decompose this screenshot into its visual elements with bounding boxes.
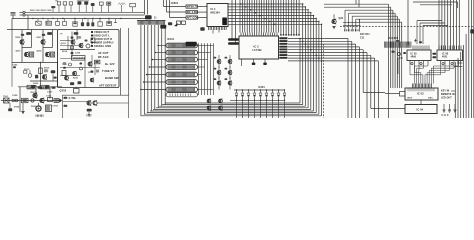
svg-text:AF OUT: AF OUT [98, 51, 109, 55]
U4 bottom stubs [440, 61, 442, 65]
svg-text:RF AGC: RF AGC [98, 55, 109, 59]
wire lower branch [30, 80, 58, 82]
svg-text:C21: C21 [360, 38, 365, 40]
resistor R9 label [26, 32, 31, 35]
svg-text:C918: C918 [53, 106, 59, 108]
svg-text:C908: C908 [12, 95, 18, 97]
IC U4 body [437, 50, 463, 61]
label box TP2 [40, 85, 49, 89]
capacitor C9 [51, 70, 56, 73]
test point cluster [160, 25, 166, 29]
transistor Q1 [20, 40, 24, 44]
transistor row under arrays 2 [207, 106, 211, 110]
nested corner links bundle to U3 area [417, 20, 442, 22]
wire U5 to U6 [420, 100, 422, 105]
diode array D4-D12 [236, 89, 237, 90]
capacitor C2 [91, 3, 95, 6]
mid module lower circuit [65, 76, 69, 80]
resistor R4 [130, 3, 136, 6]
resistor R6 [64, 19, 66, 22]
svg-text:B+ 12V: B+ 12V [105, 62, 115, 66]
connector stubs left edge of box [64, 97, 68, 99]
right descenders from bus corners (9) [347, 39, 349, 119]
resistor R12 [51, 52, 55, 57]
svg-text:R907: R907 [37, 37, 42, 39]
transistor Q7 [40, 98, 44, 102]
small parts below U3 U4 stubs [411, 62, 413, 64]
svg-text:KEY IN: KEY IN [441, 91, 449, 93]
diode D3 [8, 108, 12, 111]
resistor R20 [54, 99, 59, 103]
svg-text:D905: D905 [33, 83, 39, 85]
label box TP1 [27, 85, 36, 89]
extra grid verticals right of U2 [280, 0, 282, 34]
outer wire U3 left down to U5 [398, 57, 403, 59]
svg-text:X-TAL: X-TAL [69, 97, 77, 100]
riser verticals with junctions (9) [299, 39, 301, 104]
vertical grid right of arrays [198, 43, 200, 95]
svg-text:BAND SW: BAND SW [105, 76, 119, 80]
top jumper wires [413, 1, 458, 3]
vertical feed IC U3 leftmost pin [407, 0, 409, 45]
wire right bus joins [457, 62, 463, 64]
bottom bus horizontals heading left (9) [165, 102, 300, 104]
IC U3 top pin comb [412, 46, 414, 51]
IC U3 body [407, 50, 431, 61]
left block column 1 wire [21, 30, 23, 63]
resistor R13 [39, 68, 43, 74]
svg-text:C208: C208 [75, 53, 81, 55]
resistor R14 [91, 38, 95, 43]
resistor R7 [99, 19, 101, 22]
svg-text:VIDEO OUT: VIDEO OUT [94, 30, 109, 34]
IC U6 body [405, 105, 437, 114]
bus connector strip [137, 20, 166, 22]
wire drop to left block [11, 19, 13, 30]
transistor Q10 [332, 19, 336, 23]
svg-text:C G C: C G C [442, 114, 449, 117]
zener D2 [35, 75, 38, 79]
wires inside module lower [60, 67, 100, 69]
resistor R1 [57, 2, 60, 5]
svg-text:RA01: RA01 [168, 38, 175, 41]
op-amp circuit inside module [74, 32, 79, 35]
svg-text:TUNE VT: TUNE VT [102, 69, 114, 73]
left stub verticals top-right [355, 0, 357, 4]
connector pins CN2 [12, 99, 15, 102]
svg-text:R221: R221 [73, 78, 79, 80]
svg-text:IC 03: IC 03 [417, 92, 424, 96]
svg-text:IF: IF [61, 34, 64, 36]
component chain inside module [71, 32, 73, 59]
U2 right pin labels [279, 37, 287, 39]
IC U5 body [405, 88, 438, 100]
bus taps to resistor arrays [158, 45, 166, 47]
wire signal drops to U1 inputs [163, 0, 165, 7]
wire crossing diode array [230, 99, 285, 101]
component cluster bottom of mid-left [31, 85, 35, 88]
wire feed verticals to connector [144, 0, 146, 15]
node junctions on supply rail [32, 18, 33, 19]
U1 bottom pins [208, 27, 210, 31]
svg-text:Q702: Q702 [60, 88, 67, 92]
svg-text:J1: J1 [154, 16, 157, 19]
wire bottom of columns [12, 62, 58, 64]
wire main supply rail [12, 18, 146, 20]
extra parts lower module [90, 78, 94, 82]
capacitor C3 [37, 19, 39, 22]
resistor R16 [62, 71, 66, 76]
svg-text:AUDIO OUT L: AUDIO OUT L [92, 34, 110, 38]
U2 top pin comb [240, 33, 242, 37]
svg-text:LED OUT: LED OUT [441, 98, 452, 100]
transistor Q6 [33, 93, 37, 97]
pin-number comb above U3 [384, 42, 386, 48]
resistor R15 [95, 60, 100, 64]
U1 internal dark block [222, 18, 227, 26]
svg-text:IC 05: IC 05 [411, 53, 418, 56]
svg-text:VIF58.75: VIF58.75 [187, 6, 198, 9]
wire branch [40, 63, 42, 87]
transistor Q4 [45, 52, 49, 56]
U3 bottom stubs [409, 61, 411, 65]
wire signal chain [1, 100, 62, 102]
connector CN1 pins [23, 11, 25, 13]
wires inside bottom box [63, 101, 88, 103]
resistor R5 [57, 19, 59, 22]
wire top rail A [25, 11, 144, 13]
resistor R1c [69, 2, 72, 5]
transistor Q5 [42, 75, 46, 79]
svg-text:R905: R905 [16, 37, 21, 39]
capacitor C1 [51, 6, 55, 8]
svg-text:IC 06: IC 06 [442, 53, 449, 56]
tick labels under small grid [344, 29, 346, 31]
long verticals to bottom module [120, 28, 122, 95]
tick marks [35, 115, 37, 117]
wires arrays right ends [198, 45, 214, 47]
resistor R1b [63, 2, 66, 5]
far right vertical bus [454, 62, 456, 118]
transistor row under arrays 1 [207, 99, 211, 103]
dashed boundary horizontal [340, 26, 474, 28]
left block column 2 wire [42, 30, 44, 63]
svg-text:R916: R916 [44, 68, 50, 70]
wire label boxes to U1 [198, 6, 208, 8]
vertical bus into U2 (17 lines) [239, 0, 241, 33]
input label box 1 [186, 5, 198, 8]
far right edge mark [470, 29, 474, 33]
svg-text:IC 04: IC 04 [417, 107, 424, 111]
wire bottom-left rail [18, 86, 62, 88]
junction dots on crossing wire [236, 100, 237, 101]
svg-text:IC801: IC801 [171, 1, 179, 5]
IC U5 top pin comb [412, 84, 414, 89]
svg-text:4066: 4066 [411, 56, 417, 59]
wire rail left block top [7, 29, 58, 31]
U1 to bus horizontals with junction dots [228, 3, 303, 5]
capacitor C12 [46, 105, 52, 112]
module enclosure box [58, 30, 120, 88]
capacitor C13 above box [74, 89, 80, 94]
oscillator X1 box [72, 56, 86, 61]
parts below comb above U3 [392, 51, 395, 53]
bus horizontals from U2 to right (9) [288, 38, 348, 40]
dark label on top resistor array [186, 42, 197, 47]
components below U1 [200, 27, 204, 30]
ground cluster right of U6 [443, 104, 445, 110]
svg-text:R40 R41: R40 R41 [360, 33, 370, 36]
U5 left connector [400, 92, 406, 97]
svg-text:4051: 4051 [442, 56, 448, 59]
U2 left label 2 [228, 42, 238, 45]
transistor Q3 [41, 40, 45, 44]
input label box 3 [186, 16, 198, 19]
svg-text:AFT DEFEAT: AFT DEFEAT [99, 83, 117, 87]
extra parts on chain [31, 99, 34, 102]
U2 bottom stubs [253, 59, 255, 63]
svg-text:R52 R53: R52 R53 [389, 38, 399, 40]
ground under Q10 [332, 26, 335, 28]
input label box 2 [186, 10, 198, 13]
svg-text:OSC: OSC [428, 98, 433, 100]
wire top rail B [25, 14, 144, 16]
capacitor C10 [70, 82, 74, 85]
wire diode array rail [234, 89, 285, 91]
svg-text:Q201: Q201 [61, 43, 67, 45]
svg-text:SIGNAL GND: SIGNAL GND [94, 44, 111, 48]
resistor R10 [30, 52, 34, 57]
inductor L1 [118, 3, 125, 5]
IC U1 body [207, 4, 228, 27]
extra verticals for U2 left labels [231, 0, 233, 40]
vertical bus into U4 (8) [438, 0, 440, 50]
svg-text:RST: RST [408, 98, 413, 100]
IC U2 body [239, 36, 279, 59]
svg-text:D908: D908 [14, 107, 20, 109]
svg-text:Q31: Q31 [339, 17, 344, 20]
svg-text:Q901: Q901 [16, 51, 21, 53]
svg-text:M51364: M51364 [211, 12, 221, 15]
resistor R18 [22, 98, 29, 102]
transistor Q2 [24, 52, 28, 56]
transistor pair row 3 [217, 81, 221, 85]
capacitor C4 [47, 19, 49, 22]
capacitor C6 [82, 19, 84, 23]
svg-text:REMOTE IN: REMOTE IN [441, 94, 455, 96]
component between U3 U4 [432, 53, 436, 55]
svg-text:D401: D401 [259, 86, 266, 89]
crystal X2 [87, 109, 92, 112]
small parts left of U1 [177, 21, 181, 24]
resistor R8 [108, 19, 110, 22]
signal label list upper [91, 31, 93, 33]
svg-text:R214: R214 [62, 50, 68, 53]
resistor R17 [4, 98, 10, 103]
wire stub [115, 19, 117, 23]
resistor array bars RA1-RA7 [166, 43, 198, 48]
IC U4 top pin comb [438, 46, 440, 51]
upper-right horizontals into nested corners (7) [324, 3, 389, 5]
diode bridge D1 [77, 1, 81, 4]
svg-text:T201: T201 [62, 64, 68, 66]
ground symbol bottom-left [22, 103, 24, 112]
svg-text:D901 C903 R901 C905: D901 C903 R901 C905 [30, 10, 52, 12]
capacitor C5 [74, 19, 76, 22]
nest wires U3 to U5 [414, 66, 416, 84]
junction blob on connector [145, 15, 152, 19]
resistor R19 [48, 98, 53, 102]
bus link from U5 labels [451, 90, 455, 92]
capacitor C7 [87, 19, 89, 23]
svg-text:LC7462: LC7462 [253, 49, 263, 52]
svg-text:Q902: Q902 [37, 51, 42, 53]
transistor Q9 [93, 101, 97, 105]
resistor R3 [107, 2, 111, 5]
capacitor C11 electrolytic [36, 106, 41, 111]
svg-text:SIF 4.5M: SIF 4.5M [187, 11, 198, 14]
module box bottom-left [63, 95, 129, 118]
transistor pair row 2 [217, 71, 221, 75]
dashed boundary vertical [323, 44, 325, 118]
transistor Q8 [87, 101, 91, 105]
transistor pair row 1 [217, 60, 221, 64]
wire AC input plug J1 [11, 12, 16, 14]
U2 left label 1 [228, 38, 238, 41]
wire verticals bottom-left [19, 87, 21, 112]
resistor R11 label [47, 32, 52, 35]
small grid right of Q10 [344, 20, 346, 32]
svg-text:CXA1019: CXA1019 [73, 56, 85, 60]
resistor R2 [99, 2, 103, 5]
svg-text:AUDIO OUT R: AUDIO OUT R [94, 37, 112, 41]
spare array outline bar [166, 93, 198, 97]
vertical bus lines (8) [140, 25, 142, 116]
svg-text:AFT COIL: AFT COIL [187, 17, 200, 20]
capacitor C8 [92, 19, 94, 23]
